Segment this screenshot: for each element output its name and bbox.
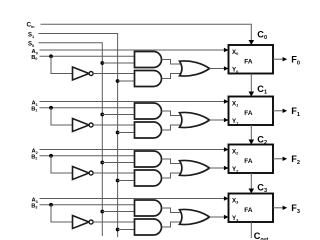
wire S1 horizontal and vertical bus — [39, 34, 118, 238]
wire A2 to FA X2 input — [40, 149, 228, 151]
junction dot S0 bus stage 1 — [100, 113, 104, 117]
arrowhead into Y3 — [224, 215, 229, 219]
arrowhead into X1 — [224, 99, 229, 103]
wire upper AND output to OR input stage 3 — [162, 208, 183, 213]
wire upper AND output to OR input stage 0 — [162, 60, 183, 65]
arrowhead carry C3 into FA3 — [249, 189, 255, 194]
arrowhead into Y2 — [224, 166, 229, 170]
wire lower AND output to OR input stage 3 — [162, 222, 183, 227]
OR gate producing Y2 stage 2 — [180, 160, 210, 175]
svg-text:Cin: Cin — [27, 21, 36, 29]
junction dot S0 bus stage 2 — [100, 161, 104, 165]
wire B3 branch down to inverter input — [51, 205, 73, 222]
wire B0 branch down to inverter input — [51, 56, 73, 73]
inverter NOT gate stage 0 — [73, 67, 94, 80]
inverter NOT gate stage 1 — [73, 119, 94, 132]
wire B1 to AND gate upper input — [40, 107, 135, 109]
svg-text:B2: B2 — [31, 154, 37, 160]
svg-text:C0: C0 — [257, 29, 267, 41]
arrowhead carry C2 into FA2 — [249, 140, 255, 145]
wire lower AND output to OR input stage 2 — [162, 173, 183, 178]
wire OR output to FA Y2 input — [210, 167, 228, 169]
wire S0 branch to upper AND gate stage 0 — [102, 62, 134, 64]
svg-text:F1: F1 — [291, 106, 300, 118]
arrowhead F2 output — [283, 157, 288, 161]
junction dot S0 bus stage 0 — [100, 61, 104, 65]
AND gate upper (B2&#183;S0) stage 2 — [135, 151, 162, 167]
wire A0 to FA X0 input — [40, 49, 228, 51]
svg-text:FA: FA — [244, 110, 253, 117]
wire carry from FA1 to FA2 — [250, 125, 252, 141]
arrowhead carry C0 into FA0 — [249, 40, 255, 45]
OR gate producing Y1 stage 1 — [180, 112, 210, 127]
svg-text:C1: C1 — [257, 84, 267, 96]
svg-text:FA: FA — [244, 58, 253, 65]
AND gate lower (B1'&#183;S1) stage 1 — [135, 122, 162, 138]
wire inverter output B2' to lower AND gate — [93, 172, 134, 174]
arrowhead F3 output — [283, 206, 288, 210]
wire carry from FA0 to FA1 — [250, 74, 252, 93]
wire S0 horizontal and vertical bus — [39, 43, 103, 236]
svg-text:S1: S1 — [28, 32, 35, 39]
junction dot on B1 wire — [49, 106, 53, 110]
junction dot on B3 wire — [49, 203, 53, 207]
AND gate upper (B3&#183;S0) stage 3 — [135, 200, 162, 216]
svg-text:B1: B1 — [31, 106, 37, 112]
wire Cin from label to FA0 carry input — [41, 24, 252, 41]
AND gate lower (B0'&#183;S1) stage 0 — [135, 71, 162, 87]
wire upper AND output to OR input stage 2 — [162, 159, 183, 164]
full adder FA1 — [229, 97, 274, 126]
full adder FA3 — [229, 194, 274, 223]
wire FA3 sum output — [273, 207, 283, 209]
wire carry out of FA3 — [250, 222, 252, 238]
arrowhead into Y1 — [224, 118, 229, 122]
wire S1 branch to lower AND gate stage 2 — [118, 180, 135, 182]
wire B2 branch down to inverter input — [51, 156, 73, 173]
full adder FA0 — [229, 45, 274, 74]
wire lower AND output to OR input stage 1 — [162, 125, 183, 130]
wire S0 branch to upper AND gate stage 2 — [102, 162, 134, 164]
junction dot S1 bus stage 3 — [116, 228, 120, 232]
arrowhead carry C1 into FA1 — [249, 92, 255, 97]
wire B2 to AND gate upper input — [40, 155, 135, 157]
OR gate producing Y3 stage 3 — [180, 209, 210, 224]
wire lower AND output to OR input stage 0 — [162, 74, 183, 79]
wire OR output to FA Y0 input — [210, 68, 228, 70]
junction dot S1 bus stage 2 — [116, 179, 120, 183]
svg-text:FA: FA — [244, 207, 253, 214]
wire S1 branch to lower AND gate stage 1 — [118, 132, 135, 134]
OR gate producing Y0 stage 0 — [180, 61, 210, 76]
wire upper AND output to OR input stage 1 — [162, 111, 183, 116]
wire S1 branch to lower AND gate stage 0 — [118, 80, 135, 82]
wire S0 branch to upper AND gate stage 1 — [102, 114, 134, 116]
wire S1 branch to lower AND gate stage 3 — [118, 229, 135, 231]
arrowhead into Y0 — [224, 66, 229, 70]
arrowhead F0 output — [283, 57, 288, 61]
svg-text:FA: FA — [244, 158, 253, 165]
wire B0 to AND gate upper input — [40, 55, 135, 57]
wire carry from FA2 to FA3 — [250, 173, 252, 190]
AND gate upper (B0&#183;S0) stage 0 — [135, 52, 162, 68]
wire FA2 sum output — [273, 158, 283, 160]
inverter NOT gate stage 3 — [73, 216, 94, 229]
AND gate lower (B2'&#183;S1) stage 2 — [135, 170, 162, 186]
wire inverter output B1' to lower AND gate — [93, 124, 134, 126]
svg-text:B3: B3 — [31, 203, 37, 209]
svg-text:S0: S0 — [28, 42, 35, 49]
svg-text:B0: B0 — [31, 55, 37, 61]
junction dot S0 bus stage 3 — [100, 210, 104, 214]
inverter NOT gate stage 2 — [73, 167, 94, 180]
svg-text:F0: F0 — [291, 55, 300, 67]
AND gate lower (B3'&#183;S1) stage 3 — [135, 219, 162, 235]
junction dot S1 bus stage 1 — [116, 131, 120, 135]
wire A3 to FA X3 input — [40, 198, 228, 200]
wire B3 to AND gate upper input — [40, 204, 135, 206]
wire A1 to FA X1 input — [40, 101, 228, 103]
wire OR output to FA Y1 input — [210, 119, 228, 121]
junction dot S1 bus stage 0 — [116, 79, 120, 83]
svg-text:C3: C3 — [257, 182, 267, 194]
AND gate upper (B1&#183;S0) stage 1 — [135, 103, 162, 119]
arrowhead into X2 — [224, 147, 229, 151]
full adder FA2 — [229, 145, 274, 174]
wire B1 branch down to inverter input — [51, 108, 73, 125]
arrowhead into X3 — [224, 196, 229, 200]
arrowhead F1 output — [283, 109, 288, 113]
wire FA0 sum output — [273, 58, 283, 60]
svg-text:F2: F2 — [291, 154, 300, 166]
svg-text:Cout: Cout — [254, 231, 269, 240]
svg-text:F3: F3 — [291, 203, 300, 215]
wire OR output to FA Y3 input — [210, 216, 228, 218]
arrowhead into X0 — [224, 48, 229, 52]
wire S0 branch to upper AND gate stage 3 — [102, 211, 134, 213]
wire inverter output B3' to lower AND gate — [93, 221, 134, 223]
wire inverter output B0' to lower AND gate — [93, 73, 134, 75]
junction dot on B2 wire — [49, 154, 53, 158]
junction dot on B0 wire — [49, 54, 53, 58]
wire FA1 sum output — [273, 110, 283, 112]
